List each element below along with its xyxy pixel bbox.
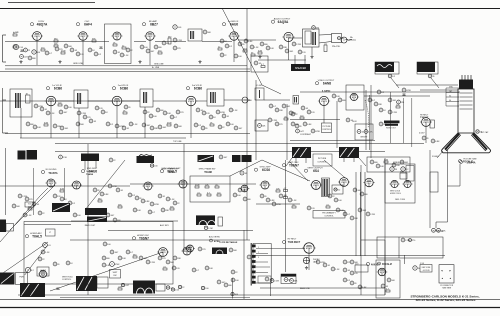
label rf amp V4: [142, 20, 158, 26]
resistor R24: [419, 120, 434, 135]
svg-text:321-22 Series, K-22 Series, 32: 321-22 Series, K-22 Series, 321-23 Serie…: [416, 298, 476, 302]
bubble e1: [269, 104, 277, 108]
svg-text:1.5K: 1.5K: [27, 215, 32, 217]
bubble g13: [38, 211, 45, 215]
bubble e18: [379, 122, 389, 127]
label+tube V7 1st vid IF: [45, 84, 63, 138]
tube V2 oscillator: [77, 32, 88, 40]
bubble m16: [224, 283, 232, 287]
bubble g11: [116, 188, 124, 192]
bubble h13: [161, 208, 169, 212]
bubble k14: [66, 261, 73, 265]
resistor R20: [210, 122, 214, 126]
label base line: [300, 287, 311, 290]
svg-text:2.2M: 2.2M: [177, 40, 182, 42]
tube V17 sync det2: [178, 180, 189, 188]
bubble c12: [94, 52, 102, 56]
resistor int5: [207, 192, 211, 196]
svg-text:6BZ7: 6BZ7: [150, 22, 158, 26]
diagonal long 1: [222, 8, 262, 85]
wire v5 drop: [233, 40, 235, 62]
svg-text:1.5K: 1.5K: [63, 157, 68, 159]
transformer T1 audio output: [303, 26, 320, 47]
bubble i9: [360, 192, 368, 196]
transformer T21 osc coil: [212, 248, 227, 255]
bubble d13: [89, 119, 97, 123]
transformer T11 flyback: [292, 147, 311, 158]
bubble c4: [20, 55, 29, 59]
bubble e21: [431, 139, 440, 143]
bubble m8: [350, 281, 357, 285]
bubble g9: [100, 192, 109, 196]
wire long vertical x361b: [360, 240, 362, 295]
svg-text:6.8K: 6.8K: [44, 122, 49, 124]
bubble m13: [231, 270, 238, 274]
wire hv drop: [390, 92, 426, 147]
diagonal route 5: [290, 160, 345, 181]
label yoke: [395, 199, 406, 201]
bubble e4: [268, 118, 277, 122]
bubble d37: [222, 114, 230, 118]
bubble i14: [366, 212, 375, 216]
capacitor C2: [100, 47, 103, 49]
bubble sp2 pin: [388, 74, 399, 88]
label 1st sound if: [222, 20, 239, 26]
box picture ctl: [322, 123, 332, 133]
box height control: [307, 206, 345, 218]
bubble m15: [217, 280, 226, 284]
box yoke enclosure: [385, 162, 415, 203]
bubble e7: [307, 110, 315, 114]
tube V23b: [38, 270, 48, 277]
wire osc drop: [82, 40, 84, 65]
bubble d2: [40, 107, 48, 111]
coil L2 filter: [15, 93, 21, 108]
svg-text:BASE LINE: BASE LINE: [300, 287, 311, 290]
svg-text:2.2M: 2.2M: [296, 44, 301, 46]
bubble g14: [73, 213, 81, 217]
svg-text:6CS6: 6CS6: [262, 168, 270, 172]
bubble d10: [77, 111, 86, 115]
gnd m1: [305, 266, 308, 269]
resistor R27: [60, 188, 65, 192]
bubble m19: [173, 256, 181, 260]
svg-text:6.8K: 6.8K: [258, 50, 263, 52]
label ratio det: [85, 224, 96, 227]
svg-text:6.8K: 6.8K: [248, 41, 253, 43]
svg-text:470K: 470K: [112, 186, 117, 188]
wire video to crt: [300, 91, 460, 93]
bubble n5: [413, 266, 421, 270]
bubble hv1: [397, 100, 405, 104]
bubble g1: [18, 194, 27, 198]
bubble d26: [170, 115, 178, 119]
label video output: [315, 80, 334, 93]
bubble k5: [110, 250, 119, 254]
svg-text:6.8K: 6.8K: [270, 200, 275, 202]
resistor R32: [292, 204, 296, 208]
wire comb links: [256, 247, 305, 273]
wire grid line: [0, 55, 262, 72]
wire video out drop: [324, 101, 337, 148]
resistor int4: [197, 192, 201, 196]
bubble k16: [53, 262, 60, 266]
label t6: [41, 169, 58, 175]
box tuner enclosure: [105, 24, 132, 64]
crt label: [460, 159, 478, 165]
resistor int1: [195, 184, 200, 188]
label picture control: [313, 154, 332, 166]
bubble k11: [158, 256, 166, 260]
label sound det: [6, 148, 65, 215]
box lt: [46, 229, 56, 236]
svg-text:CONTROL: CONTROL: [62, 279, 71, 281]
transformer T17 yoke stripes: [20, 283, 45, 297]
bubble e16: [388, 98, 397, 102]
diagonal long 2: [262, 85, 281, 94]
svg-text:B+ LINE: B+ LINE: [152, 67, 160, 69]
bubble i11: [343, 212, 351, 216]
bubble i13: [358, 208, 367, 212]
bubble g6: [60, 197, 67, 201]
bubble e5: [275, 122, 283, 126]
tube V24 damper: [302, 243, 315, 253]
wire long vertical x247: [246, 8, 248, 240]
bubble h1: [128, 193, 136, 197]
svg-text:+FOCUS: +FOCUS: [423, 270, 431, 272]
box comb enclosure: [253, 244, 385, 297]
transformer T13 ratio det: [52, 203, 70, 212]
bubble c16: [140, 45, 148, 49]
bubble e3: [282, 104, 291, 108]
capacitor C3: [57, 288, 60, 290]
transformer T16 power left: [0, 273, 15, 285]
wire br vert: [398, 237, 400, 258]
svg-text:6AF4: 6AF4: [84, 22, 92, 26]
bubble k7: [118, 256, 126, 260]
label+tube V9 3rd vid IF: [185, 84, 203, 138]
bubble k10: [146, 260, 155, 264]
resistor R16: [58, 102, 62, 106]
bubble e15: [374, 102, 382, 106]
wire bottom bus2: [60, 297, 250, 299]
tube V13 hv rect: [420, 118, 432, 127]
svg-text:6AQ5A: 6AQ5A: [278, 20, 289, 24]
label title line1: [410, 294, 479, 298]
bubble m18: [192, 268, 200, 272]
node AA terminals: [432, 228, 447, 233]
capacitor C1: [21, 50, 24, 52]
diagonal route 1: [0, 188, 48, 242]
bubble g10: [108, 184, 118, 188]
bubble j2: [401, 167, 409, 171]
svg-text:6S4: 6S4: [313, 169, 319, 173]
wire yoke verticals: [436, 150, 448, 228]
resistor R2: [13, 44, 18, 48]
svg-text:FOCALIZ: FOCALIZ: [432, 155, 439, 158]
node left antenna stub: [3, 35, 9, 133]
resistor R36: [386, 288, 390, 292]
wire bottom border line 1: [0, 299, 500, 301]
bubble m9: [358, 285, 367, 289]
bubble c10: [76, 52, 84, 56]
wire t10 leads: [85, 161, 96, 176]
transformer T14 quad: [85, 208, 107, 215]
wire filter bottom: [20, 108, 22, 117]
speaker SP2 block: [375, 62, 399, 74]
bubble k19: [118, 278, 239, 299]
bubble f1: [370, 160, 378, 164]
wire damper drop: [308, 253, 310, 270]
bubble f2: [376, 164, 384, 168]
svg-text:T6AN8: T6AN8: [86, 173, 94, 176]
svg-text:1.5K: 1.5K: [420, 263, 425, 265]
transformer T12 flyback: [339, 147, 359, 158]
label horiz osc: [132, 235, 149, 240]
wire top border line: [0, 8, 500, 10]
resistor R14: [258, 50, 263, 54]
bubble k3: [38, 257, 45, 261]
svg-text:RATIO DET: RATIO DET: [85, 224, 96, 227]
svg-text:PICTURE: PICTURE: [323, 126, 332, 128]
crt input wires: [446, 88, 459, 106]
bubble k15: [25, 267, 34, 272]
tube V6b bubble: [341, 36, 356, 43]
svg-text:6AU6: 6AU6: [89, 169, 97, 173]
resistor R21: [284, 116, 288, 120]
label oscillator V2: [76, 21, 92, 26]
svg-text:6.8K: 6.8K: [104, 194, 109, 196]
wire long vertical x404: [404, 255, 406, 264]
tube V11 video out: [318, 96, 330, 105]
bubble m11: [323, 263, 331, 267]
wire mid verticals: [361, 158, 385, 295]
svg-text:3: 3: [258, 257, 259, 259]
bubble g4: [32, 202, 40, 206]
node column circles: [173, 25, 183, 50]
bubble d23: [142, 123, 151, 127]
wire sync right: [364, 95, 430, 97]
svg-text:TO PIX RECTANGLE: TO PIX RECTANGLE: [219, 241, 238, 244]
bubble d6: [26, 122, 34, 126]
bubble c32: [292, 42, 301, 46]
bubble i7: [334, 198, 342, 202]
svg-text:2.2M: 2.2M: [272, 120, 277, 122]
wire v1 drop: [36, 41, 38, 66]
label grid line: [73, 63, 84, 65]
box def yoke: [420, 263, 432, 272]
svg-text:2: 2: [258, 252, 259, 254]
svg-text:1.5K: 1.5K: [50, 113, 55, 115]
bubble c19: [162, 41, 170, 45]
svg-text:2.2M: 2.2M: [370, 214, 375, 216]
transformer T20 left edge: [0, 220, 14, 233]
svg-text:CONTRAST: CONTRAST: [300, 133, 312, 136]
bubble g15: [106, 213, 115, 217]
coil vert output trans: [322, 178, 330, 197]
resistor R33: [326, 204, 330, 208]
bubble c3: [32, 50, 41, 54]
svg-text:AGC KEYED: AGC KEYED: [209, 236, 221, 239]
label m1: [313, 259, 380, 267]
wire row1b: [155, 41, 186, 43]
wire if link3: [196, 100, 250, 101]
crt grid lines: [460, 93, 473, 109]
resistor R19: [167, 122, 172, 126]
wire bottom border line 2: [0, 307, 500, 309]
bubble c26: [220, 53, 227, 57]
resistor R23: [396, 104, 400, 108]
bubble d39: [218, 125, 225, 129]
bubble n1: [401, 238, 410, 242]
wire if row main: [0, 100, 140, 102]
bubble d5: [59, 110, 68, 114]
bubble ev1: [291, 112, 298, 116]
wire t2 leads: [295, 55, 305, 64]
bubble m4: [343, 268, 351, 272]
label vert osc: [282, 162, 299, 167]
svg-text:T6SN7: T6SN7: [289, 163, 299, 167]
svg-text:HORIZ: HORIZ: [40, 270, 46, 272]
resistor R9: [158, 50, 162, 54]
svg-text:HV RECT: HV RECT: [288, 239, 298, 241]
wire sound row: [202, 41, 232, 43]
bubble k17: [102, 263, 111, 267]
svg-text:470K: 470K: [167, 122, 172, 124]
box horiz afc enclosure: [24, 221, 178, 284]
wire bottom box: [178, 252, 385, 295]
resistor R13: [251, 52, 255, 56]
focus coil FC block: [417, 62, 438, 74]
svg-text:140V: 140V: [352, 121, 357, 123]
svg-text:DEFL YOKE: DEFL YOKE: [395, 199, 406, 201]
label converter V1: [30, 21, 48, 26]
bubble d38: [229, 108, 238, 112]
bubble e14: [368, 98, 376, 102]
bubble c24: [244, 39, 253, 43]
svg-text:TOP LINE: TOP LINE: [173, 141, 182, 143]
bubble m20: [247, 255, 256, 259]
bubble m1: [303, 257, 309, 263]
resistor R28: [98, 198, 102, 202]
wire det link: [264, 99, 290, 101]
bubble d11: [83, 115, 91, 119]
bubble d24: [156, 108, 164, 112]
tube V23 afc2: [182, 247, 193, 255]
box r vert: [332, 185, 343, 194]
svg-text:1.5K: 1.5K: [19, 47, 24, 49]
bubble d16: [106, 122, 114, 126]
bubble c17: [146, 49, 155, 53]
bubble h11: [133, 208, 141, 212]
transformer T14b: [87, 217, 107, 223]
bubble c20: [203, 30, 211, 34]
diagonal route 3: [85, 160, 125, 210]
svg-text:4.5KV: 4.5KV: [419, 133, 425, 135]
label hv rect: [420, 115, 429, 120]
wire if link1: [56, 100, 112, 102]
resistor Rsy1: [284, 188, 288, 192]
bubble c28: [260, 42, 268, 46]
svg-text:1.5K: 1.5K: [124, 55, 129, 57]
bubble hv3: [377, 90, 385, 94]
connector J1 comb: [251, 243, 255, 286]
svg-text:G4: G4: [449, 100, 451, 102]
wire if rail drops: [21, 107, 145, 138]
wire if link2: [122, 100, 186, 102]
tube V10 video det: [242, 97, 253, 103]
svg-text:470K: 470K: [154, 204, 159, 206]
bubble t6b: [59, 155, 117, 162]
label audio output: [271, 18, 291, 24]
tube V18 sync sep: [260, 181, 271, 189]
label sync sep: [254, 167, 271, 172]
tube V21 horiz afc: [363, 178, 374, 186]
bubble h10: [243, 197, 251, 201]
wire if bottom rail: [5, 134, 250, 139]
svg-text:PIN LINEARITY: PIN LINEARITY: [322, 211, 336, 214]
svg-text:T6AN7A: T6AN7A: [48, 172, 58, 175]
bubble e13: [332, 94, 340, 98]
bubble c5: [28, 56, 36, 60]
bubble e8: [289, 111, 297, 115]
tube yoke coil1: [389, 180, 399, 187]
bubble c21: [220, 39, 227, 43]
resistor R10: [168, 36, 172, 44]
svg-text:1.5K: 1.5K: [133, 124, 138, 126]
bubble g2: [25, 197, 33, 201]
svg-text:BRIGHT: BRIGHT: [361, 137, 369, 139]
bubble e2: [275, 108, 283, 112]
bubble e6: [301, 106, 309, 110]
wire row1 main: [5, 41, 109, 43]
bubble e9: [295, 124, 302, 128]
svg-text:CONTROL: CONTROL: [324, 215, 333, 217]
bubble h7: [173, 201, 180, 205]
resistor R5: [61, 50, 66, 54]
bubble g12: [23, 213, 32, 217]
bubble d40: [226, 122, 234, 126]
box vert out sub: [367, 157, 410, 172]
box trap 4.5mc: [255, 85, 264, 100]
bubble d3: [46, 111, 55, 115]
box focaliz enclosure: [376, 260, 400, 298]
svg-text:T6X8 RECT: T6X8 RECT: [288, 242, 301, 244]
wire long vertical x184: [183, 144, 185, 252]
diagonal route 2: [10, 185, 55, 230]
crt bell: [442, 133, 491, 153]
box yoke inner: [406, 166, 414, 182]
resistor R17: [44, 122, 49, 126]
wire vid verticals: [256, 80, 287, 160]
bubble d25: [163, 111, 171, 115]
svg-text:6CB6: 6CB6: [194, 86, 202, 90]
bubble m17: [205, 266, 213, 270]
box vid det load: [255, 120, 268, 131]
box integrator: [190, 176, 230, 202]
wire long vertical x285: [285, 160, 287, 272]
bubble m3: [350, 260, 358, 264]
bubble d9: [60, 126, 69, 130]
wire long vertical x88: [87, 144, 89, 295]
box brightness: [355, 124, 373, 140]
bubble fc pin: [428, 74, 439, 88]
svg-text:2.2M: 2.2M: [274, 281, 279, 283]
bubble c9: [70, 48, 78, 52]
label focaliz top: [459, 160, 474, 164]
wire v6 out: [288, 37, 302, 39]
bubble d17: [124, 105, 131, 109]
